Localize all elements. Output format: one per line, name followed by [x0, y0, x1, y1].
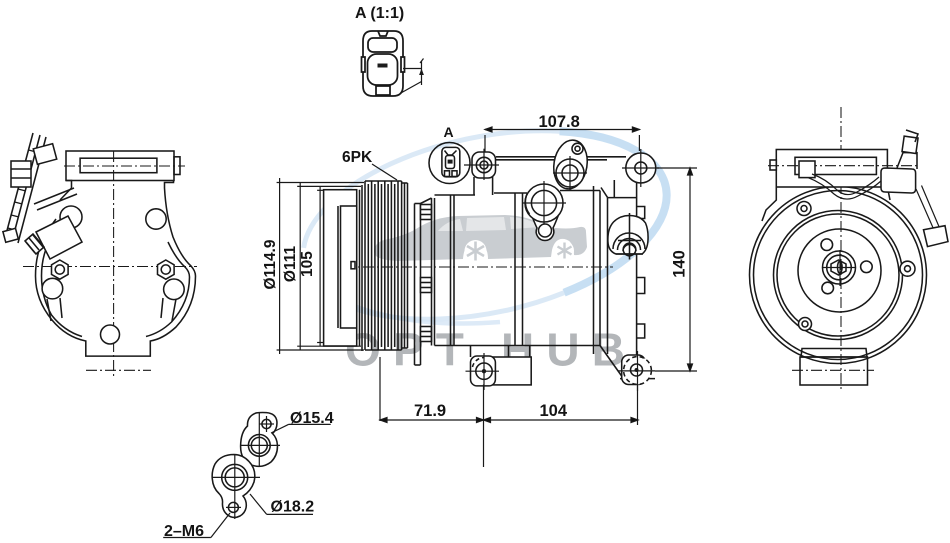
svg-text:Ø18.2: Ø18.2 [271, 499, 315, 516]
shoulder right [165, 181, 174, 189]
bracket diagonal strip [5, 133, 46, 243]
kidney small hole [572, 143, 583, 154]
nut right [158, 260, 175, 279]
svg-text:105: 105 [299, 251, 316, 277]
centerline main axis [325, 266, 613, 268]
gusset lower-left [47, 298, 62, 321]
rear bottom lug [622, 355, 646, 385]
connector side notch right [401, 57, 405, 72]
dim 107.8 [485, 127, 639, 152]
connector outer [363, 31, 403, 96]
watermark car body [374, 215, 587, 261]
dim phi111 line [297, 182, 361, 350]
connector top notch [378, 31, 388, 36]
front bolt 1 [421, 205, 432, 220]
bracket plate edge lines [34, 188, 77, 210]
detail A mini connector [442, 147, 460, 176]
svg-text:Ø111: Ø111 [282, 246, 299, 283]
circle lower-left [42, 278, 63, 299]
strip top cap [33, 144, 56, 165]
svg-text:Ø114.9: Ø114.9 [262, 239, 279, 289]
svg-text:A (1:1): A (1:1) [355, 5, 404, 22]
bracket top rails [496, 157, 626, 160]
circle lower-right [164, 279, 185, 300]
nut left [52, 260, 69, 279]
strip ticks [8, 150, 37, 230]
bottom front lug [471, 346, 496, 386]
watermark blue swoosh lower second arc [330, 296, 500, 324]
bolt head left [11, 161, 31, 187]
lower port circle [222, 464, 248, 490]
svg-text:A: A [444, 124, 454, 140]
front bolt 3 [421, 327, 432, 342]
detail circle A [429, 143, 470, 184]
foot centerline [86, 369, 151, 371]
eye circle left [60, 206, 82, 228]
clutch rear face [359, 190, 361, 346]
lug washer arc dashed [473, 358, 485, 368]
lower bolt head [3, 228, 18, 242]
eye circle right [146, 209, 166, 229]
svg-text:107.8: 107.8 [539, 113, 580, 131]
dome fitting rear [608, 213, 648, 260]
dim 71.9 / 104 [380, 357, 638, 467]
watermark car windows [438, 219, 463, 231]
circle bottom [101, 325, 120, 344]
connector lower cavity [368, 54, 398, 85]
kidney big hole [556, 159, 584, 187]
svg-text:140: 140 [670, 250, 688, 278]
dim 140 [655, 168, 697, 371]
upper port circle [248, 435, 270, 457]
head rect [66, 151, 174, 181]
watermark group [304, 131, 667, 376]
upper lobe outline [241, 413, 278, 467]
watermark front wheel [465, 240, 487, 262]
front lug post [474, 177, 493, 195]
shoulders [762, 187, 890, 221]
rear bracket [594, 180, 656, 379]
dim phi114.9 line [277, 178, 364, 354]
bracket tab 3 [637, 324, 645, 338]
top head [776, 150, 887, 188]
lower lobe outline [212, 455, 255, 518]
fitting block angled [36, 216, 82, 259]
connector top square [902, 136, 918, 153]
pulley grooves 6PK [365, 181, 402, 350]
connector arm [897, 153, 917, 169]
lower bolt hole [228, 502, 238, 512]
svg-text:104: 104 [540, 402, 568, 420]
svg-text:6PK: 6PK [342, 149, 373, 166]
wire harness [808, 174, 881, 199]
shoulder left [60, 181, 72, 201]
strap [916, 186, 939, 231]
centerline vertical [113, 151, 115, 378]
wire clamp block [799, 161, 815, 178]
pointer flag [400, 59, 424, 94]
connector upper cavity [368, 38, 397, 52]
bracket tab 1 [637, 207, 645, 219]
ribbed wedge [25, 234, 44, 254]
head right tab [174, 157, 180, 175]
foot [801, 349, 867, 358]
keyhole boss [532, 215, 559, 240]
connector block [881, 168, 916, 193]
6PK leader [372, 164, 397, 180]
bracket tab 2 [637, 278, 645, 294]
rim bolts [797, 202, 811, 216]
svg-text:71.9: 71.9 [414, 402, 446, 420]
gusset lower-right [161, 298, 176, 321]
front bolt 2 [421, 278, 432, 293]
hub [823, 251, 856, 284]
watermark blue swoosh right strong arc [560, 131, 667, 292]
hub crosshair [823, 250, 856, 286]
spoke holes [821, 239, 833, 251]
kidney plate [550, 138, 590, 192]
connector side notch left [362, 57, 366, 72]
connector slot [378, 64, 388, 68]
head slot [80, 158, 157, 173]
rear top lug [626, 153, 656, 183]
body outline [36, 188, 196, 356]
clutch disc rect [324, 190, 357, 346]
body outline [421, 191, 601, 346]
connector bottom tab [376, 86, 390, 95]
pulley rear flange [402, 183, 408, 348]
upper bolt hole [262, 419, 271, 428]
centerline vertical [840, 107, 842, 390]
dim 105 line [317, 186, 325, 346]
foot block [493, 346, 531, 385]
big circles [750, 187, 927, 364]
front housing rim [415, 204, 421, 366]
watermark blue ellipse swoosh [304, 131, 560, 248]
front lug [472, 152, 496, 178]
watermark rear wheel [555, 241, 574, 260]
centerline horizontal [23, 266, 197, 268]
